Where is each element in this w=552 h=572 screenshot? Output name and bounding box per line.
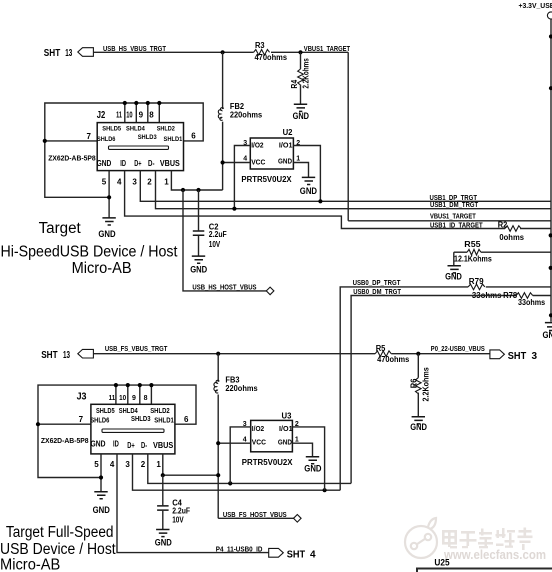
svg-text:VBUS1_TARGET: VBUS1_TARGET — [304, 46, 351, 53]
wire U3 pin2 I/O1 to D+ — [292, 427, 324, 490]
wire J3 pin5 to GND — [100, 454, 102, 491]
svg-text:I/O1: I/O1 — [279, 424, 293, 433]
svg-text:SHLD2: SHLD2 — [150, 408, 170, 415]
ground U3 — [304, 457, 321, 474]
svg-text:I/O2: I/O2 — [252, 424, 264, 433]
svg-text:VBUS: VBUS — [160, 158, 180, 168]
svg-text:Hi-SpeedUSB Device / Host: Hi-SpeedUSB Device / Host — [1, 244, 179, 261]
svg-text:Micro-AB: Micro-AB — [0, 557, 60, 572]
svg-text:3: 3 — [532, 351, 538, 362]
wire U2 pin1 GND — [293, 163, 308, 178]
svg-text:4: 4 — [243, 436, 247, 443]
wire USB_HS_HOST_VBUS — [183, 190, 266, 291]
wire U3 pin4 VCC — [218, 442, 251, 444]
svg-text:I/O1: I/O1 — [279, 141, 293, 150]
svg-text:7: 7 — [87, 132, 92, 141]
svg-text:R3: R3 — [255, 41, 265, 50]
wire J2 pin3 D+ / USB1_DP_TRGT — [140, 171, 550, 202]
connector J3 outer shield wiring — [36, 383, 196, 478]
resistor R2 — [498, 221, 525, 243]
svg-text:D-: D- — [141, 440, 147, 450]
svg-text:VCC: VCC — [252, 438, 267, 447]
svg-text:R2: R2 — [498, 221, 508, 230]
capacitor C2 — [193, 190, 227, 256]
svg-text:220ohms: 220ohms — [225, 384, 258, 393]
svg-text:SHT: SHT — [287, 550, 305, 561]
svg-text:USB1_DP_TRGT: USB1_DP_TRGT — [430, 195, 478, 202]
svg-text:GND: GND — [278, 156, 292, 165]
wire VBUS1 vertical — [347, 52, 349, 221]
wire U2 pin4 VCC — [223, 162, 251, 164]
svg-text:VBUS1_TARGET: VBUS1_TARGET — [430, 214, 476, 221]
svg-text:0ohms: 0ohms — [499, 233, 524, 242]
svg-text:GND: GND — [300, 186, 317, 196]
resistor R6 — [410, 354, 431, 417]
ground U2 — [300, 177, 317, 195]
wire J2 pin4 ID — [125, 171, 505, 229]
sheet port SHT 13 (bottom) — [41, 349, 93, 361]
node R6 tap — [416, 352, 420, 356]
ground R55 — [445, 266, 462, 282]
svg-text:GND: GND — [91, 439, 106, 449]
svg-text:GND: GND — [93, 505, 110, 515]
svg-text:USB Device / Host: USB Device / Host — [0, 541, 116, 558]
svg-text:R55: R55 — [464, 240, 481, 249]
svg-text:SHLD3: SHLD3 — [131, 416, 151, 423]
svg-text:13: 13 — [65, 48, 72, 59]
connector J2 outer shield wiring — [43, 101, 204, 197]
sheet port SHT 13 (top) — [44, 48, 94, 59]
svg-text:8: 8 — [144, 395, 148, 402]
svg-text:D+: D+ — [134, 158, 141, 168]
svg-text:6: 6 — [191, 132, 196, 141]
svg-text:ZX62D-AB-5P8: ZX62D-AB-5P8 — [48, 155, 96, 162]
svg-text:11: 11 — [116, 111, 122, 120]
svg-text:12.1Kohms: 12.1Kohms — [454, 255, 492, 264]
svg-text:7: 7 — [79, 415, 84, 424]
wire J2 pin5 to GND — [108, 171, 110, 218]
ground J2 pin5 — [98, 218, 115, 239]
svg-text:J3: J3 — [77, 391, 87, 402]
sheet port SHT 4 — [269, 548, 316, 560]
svg-text:SHLD1: SHLD1 — [154, 418, 174, 425]
ground R4 — [293, 104, 309, 121]
svg-text:6: 6 — [184, 415, 189, 424]
svg-text:P0_22-USB0_VBUS: P0_22-USB0_VBUS — [431, 346, 485, 353]
ground R6 — [410, 417, 427, 432]
svg-text:GND: GND — [445, 272, 462, 282]
port diamond USB_HS_HOST_VBUS — [266, 287, 274, 295]
svg-text:470ohms: 470ohms — [255, 53, 288, 62]
svg-text:GND: GND — [543, 330, 552, 340]
svg-text:USB1_DM_TRGT: USB1_DM_TRGT — [430, 202, 479, 209]
ferrite bead FB3 — [214, 352, 258, 519]
svg-text:GND: GND — [304, 464, 321, 474]
ground right rail (cropped) — [543, 313, 552, 340]
svg-text:SHLD6: SHLD6 — [90, 418, 109, 425]
svg-text:USB_FS_VBUS_TRGT: USB_FS_VBUS_TRGT — [105, 346, 168, 353]
TVS diode U2 PRTR5V0U2X — [241, 127, 300, 184]
ferrite bead FB2 — [218, 50, 262, 190]
resistor R55 — [454, 240, 551, 266]
svg-text:SHLD3: SHLD3 — [138, 134, 157, 141]
svg-text:2.2Kohms: 2.2Kohms — [302, 58, 311, 89]
svg-text:GND: GND — [410, 422, 427, 432]
svg-text:9: 9 — [139, 111, 144, 120]
svg-text:8: 8 — [149, 111, 154, 120]
ground C4 — [155, 530, 172, 548]
svg-text:SHLD4: SHLD4 — [126, 126, 145, 133]
TVS diode U3 PRTR5V0U2X — [242, 411, 299, 467]
svg-text:Target: Target — [39, 220, 82, 237]
svg-text:10: 10 — [126, 111, 133, 120]
wire J3 pin1 VBUS — [163, 454, 218, 475]
wire USB_FS_HOST_VBUS — [218, 517, 293, 519]
component U25 box (cropped) — [417, 558, 552, 572]
svg-text:4: 4 — [117, 177, 122, 186]
wire R3 to corner — [271, 51, 348, 53]
svg-text:D+: D+ — [127, 440, 135, 450]
svg-text:GND: GND — [278, 438, 292, 447]
svg-text:9: 9 — [132, 395, 136, 402]
sheet port SHT 3 — [490, 350, 538, 362]
svg-text:SHT: SHT — [44, 48, 60, 59]
svg-text:10V: 10V — [209, 240, 221, 249]
watermark elecfans logo — [405, 518, 437, 558]
svg-text:SHLD5: SHLD5 — [102, 126, 121, 133]
svg-text:USB1_ID_TARGET: USB1_ID_TARGET — [430, 222, 483, 229]
resistor R4 — [290, 52, 311, 103]
svg-text:13: 13 — [63, 350, 70, 361]
svg-text:SHT: SHT — [508, 351, 526, 362]
svg-text:USB_FS_HOST_VBUS: USB_FS_HOST_VBUS — [223, 512, 287, 519]
power +3.3V_USB1 rail — [519, 3, 552, 322]
svg-text:1: 1 — [295, 436, 299, 443]
ground C2 — [190, 256, 207, 275]
watermark chinese text — [442, 528, 533, 551]
svg-text:ID: ID — [120, 158, 126, 168]
wire J3 pin2 D- — [148, 454, 351, 484]
svg-text:1: 1 — [164, 177, 169, 186]
svg-text:GND: GND — [98, 229, 115, 239]
svg-text:Target Full-Speed: Target Full-Speed — [6, 524, 114, 541]
wire USB_HS_VBUS_TRGT — [93, 51, 253, 53]
svg-text:GND: GND — [97, 158, 112, 168]
svg-text:4: 4 — [243, 155, 247, 162]
svg-text:SHLD1: SHLD1 — [164, 136, 183, 143]
svg-text:P4_11-USB0_ID: P4_11-USB0_ID — [216, 546, 263, 553]
wire U3 pin3 I/O2 to D- — [230, 427, 251, 484]
svg-text:2.2Kohms: 2.2Kohms — [421, 367, 430, 402]
svg-text:SHLD5: SHLD5 — [96, 408, 115, 415]
svg-text:4: 4 — [110, 460, 115, 469]
wire USB0_DP_TRGT — [340, 287, 468, 490]
svg-text:+3.3V_USB1: +3.3V_USB1 — [519, 3, 552, 10]
svg-text:ZX62D-AB-5P8: ZX62D-AB-5P8 — [41, 438, 89, 445]
svg-text:5: 5 — [94, 460, 99, 469]
wire J3 pin3 D+ — [133, 454, 341, 490]
resistor R5 — [375, 344, 410, 364]
svg-text:Micro-AB: Micro-AB — [72, 260, 132, 277]
svg-text:10V: 10V — [172, 516, 184, 525]
wire USB0_DM_TRGT — [351, 296, 516, 484]
svg-text:GND: GND — [155, 538, 172, 548]
svg-text:ID: ID — [113, 439, 119, 449]
resistor R78 — [503, 291, 546, 307]
svg-text:1: 1 — [156, 460, 161, 469]
svg-text:SHT: SHT — [41, 350, 57, 361]
connector J2 ZX62D-AB-5P8 — [48, 110, 196, 186]
svg-text:J2: J2 — [97, 110, 106, 121]
svg-text:USB_HS_HOST_VBUS: USB_HS_HOST_VBUS — [192, 285, 256, 292]
svg-text:www.elecfans.com: www.elecfans.com — [443, 548, 546, 562]
svg-text:U2: U2 — [283, 127, 293, 137]
svg-text:2.2uF: 2.2uF — [209, 230, 227, 239]
svg-text:GND: GND — [190, 265, 207, 275]
ground J3 pin5 — [93, 492, 110, 516]
svg-text:R78: R78 — [503, 291, 518, 300]
svg-text:3: 3 — [132, 177, 137, 186]
capacitor C4 — [157, 475, 190, 529]
node VBUS1_TARGET (top) — [298, 50, 302, 54]
svg-text:R5: R5 — [376, 344, 386, 353]
shield stubs pins 11 10 9 8 — [124, 103, 126, 123]
svg-text:2: 2 — [141, 460, 146, 469]
resistor R3 — [254, 41, 288, 62]
svg-text:470ohms: 470ohms — [377, 355, 410, 364]
svg-text:4: 4 — [310, 550, 316, 561]
svg-text:GND: GND — [293, 111, 309, 121]
svg-text:I/O2: I/O2 — [251, 141, 263, 150]
svg-text:PRTR5V0U2X: PRTR5V0U2X — [242, 457, 293, 467]
svg-text:220ohms: 220ohms — [230, 110, 263, 119]
wire VBUS1_TARGET bus — [348, 220, 551, 222]
svg-text:3: 3 — [125, 460, 130, 469]
svg-text:R6: R6 — [410, 378, 419, 388]
svg-text:10: 10 — [119, 395, 126, 402]
wire USB_FS_VBUS_TRGT — [93, 353, 375, 355]
svg-text:VCC: VCC — [251, 158, 266, 167]
svg-text:D-: D- — [148, 158, 155, 168]
wire U3 pin1 GND — [292, 443, 312, 456]
svg-text:R79: R79 — [469, 277, 484, 286]
svg-text:5: 5 — [102, 177, 107, 186]
svg-text:2.2uF: 2.2uF — [172, 506, 190, 515]
svg-text:USB0_DM_TRGT: USB0_DM_TRGT — [353, 289, 401, 296]
svg-text:U3: U3 — [282, 411, 292, 421]
svg-text:SHLD2: SHLD2 — [157, 126, 175, 133]
svg-text:1: 1 — [296, 155, 300, 162]
port diamond USB_FS_HOST_VBUS — [294, 515, 302, 523]
wire J2 pin2 D- / USB1_DM_TRGT — [156, 171, 551, 209]
resistor R79 — [468, 277, 502, 300]
svg-text:PRTR5V0U2X: PRTR5V0U2X — [241, 174, 291, 184]
svg-text:SHLD6: SHLD6 — [97, 136, 116, 143]
wire U2 pin3 I/O2 to D- — [234, 146, 250, 209]
wire U2 pin2 I/O1 to D+ — [293, 146, 320, 202]
svg-text:SHLD4: SHLD4 — [119, 408, 138, 415]
svg-text:USB0_DP_TRGT: USB0_DP_TRGT — [353, 280, 401, 287]
connector J3 ZX62D-AB-5P8 — [41, 391, 189, 469]
svg-text:33ohms: 33ohms — [518, 298, 546, 307]
wire J2 pin1 VBUS — [171, 171, 222, 190]
wire J3 pin4 ID / P4_11-USB0_ID — [117, 454, 269, 553]
svg-text:VBUS: VBUS — [153, 440, 174, 450]
svg-text:R4: R4 — [290, 79, 299, 88]
svg-text:2: 2 — [147, 177, 152, 186]
svg-text:11: 11 — [109, 395, 116, 402]
